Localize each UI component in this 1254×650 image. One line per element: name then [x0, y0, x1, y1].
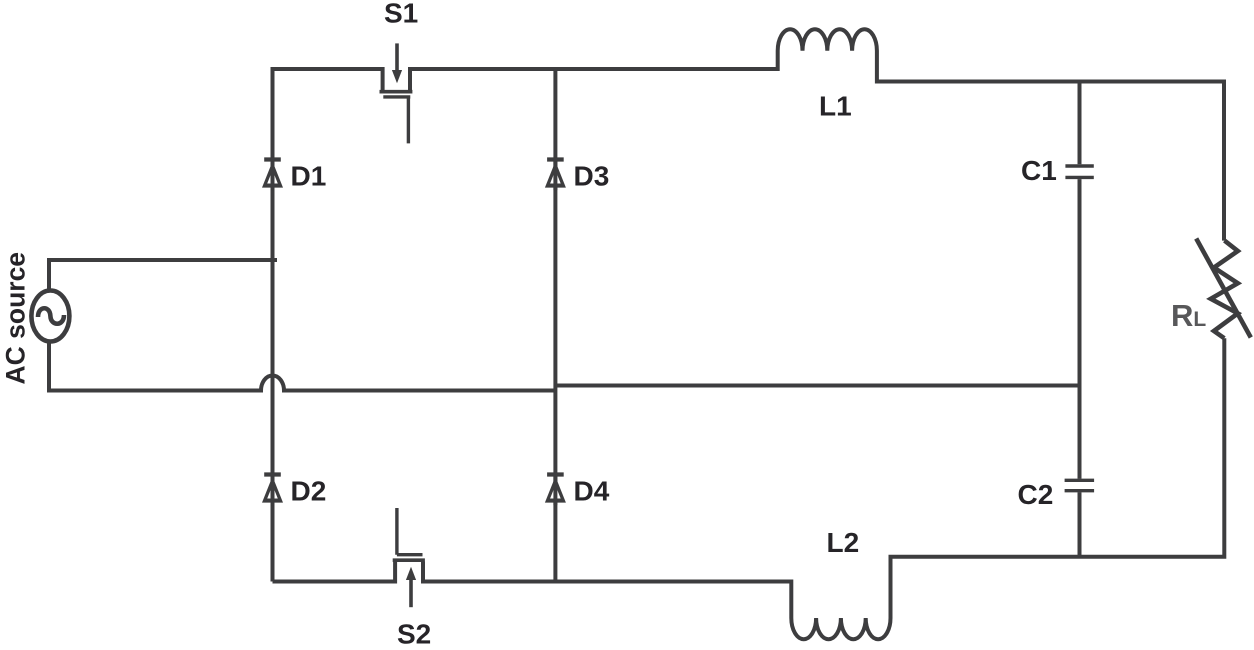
capacitor C2 plates: [1065, 480, 1095, 490]
label C1: [1021, 155, 1057, 186]
switch S2 control arrow: [406, 567, 416, 607]
svg-text:S1: S1: [384, 0, 418, 28]
switch S2 channel bar: [393, 558, 425, 562]
switch S2 gate line and gate lead: [397, 508, 423, 555]
wire: RL bottom to bottom-right corner, bottom-right wire, inductor L2 coil, to S2 right stub: [423, 338, 1224, 639]
label S1: [384, 0, 418, 28]
svg-text:C1: C1: [1021, 155, 1057, 186]
AC source V1: [31, 291, 69, 342]
svg-text:RL: RL: [1171, 298, 1206, 333]
diode D4: [545, 475, 566, 506]
resistor RL zigzag: [1211, 241, 1238, 339]
label D4: [574, 476, 610, 507]
wire: AC bottom lead and middle-left wire with hop over D1-D2 branch: [49, 342, 555, 391]
switch S1 control arrow: [392, 43, 402, 83]
label D3: [574, 161, 610, 192]
label L1: [819, 91, 852, 122]
wire: middle bridge vertical (D3-D4 branch): [553, 69, 557, 582]
svg-text:D4: D4: [574, 476, 610, 507]
wire: from S1 right stub along top, inductor L1 coil, to top-right corner down to RL top: [410, 29, 1224, 240]
label C2: [1018, 479, 1054, 510]
svg-text:L1: L1: [819, 91, 852, 122]
wire: left bridge vertical (D1-D2 branch) with top wire to S1 left stub: [273, 69, 383, 582]
wire: AC top lead and wire to bridge: [49, 260, 277, 291]
wire: middle-right wire from bridge to capacitor branch: [555, 384, 1079, 388]
label S2: [397, 619, 431, 650]
switch S1 gate line and gate lead: [383, 97, 410, 143]
capacitor C1 plates: [1065, 166, 1093, 177]
svg-text:S2: S2: [397, 619, 431, 650]
label L2: [827, 527, 860, 558]
svg-text:L2: L2: [827, 527, 860, 558]
svg-text:D3: D3: [574, 161, 610, 192]
resistor RL adjustment diagonal: [1196, 239, 1251, 338]
diode D1: [262, 160, 283, 191]
svg-text:D2: D2: [291, 476, 327, 507]
diode D2: [262, 475, 283, 506]
wire: capacitor branch vertical segments: [1078, 82, 1082, 557]
switch S1 channel bar: [380, 90, 413, 94]
label D1: [291, 161, 327, 192]
label AC source (rotated): [1, 252, 31, 385]
svg-text:C2: C2: [1018, 479, 1054, 510]
svg-text:AC source: AC source: [1, 252, 31, 385]
label D2: [291, 476, 327, 507]
label RL: [1171, 298, 1206, 333]
wire: S2 left stub and bottom wire to left bridge corner: [273, 562, 396, 582]
diode D3: [545, 160, 566, 191]
svg-text:D1: D1: [291, 161, 327, 192]
